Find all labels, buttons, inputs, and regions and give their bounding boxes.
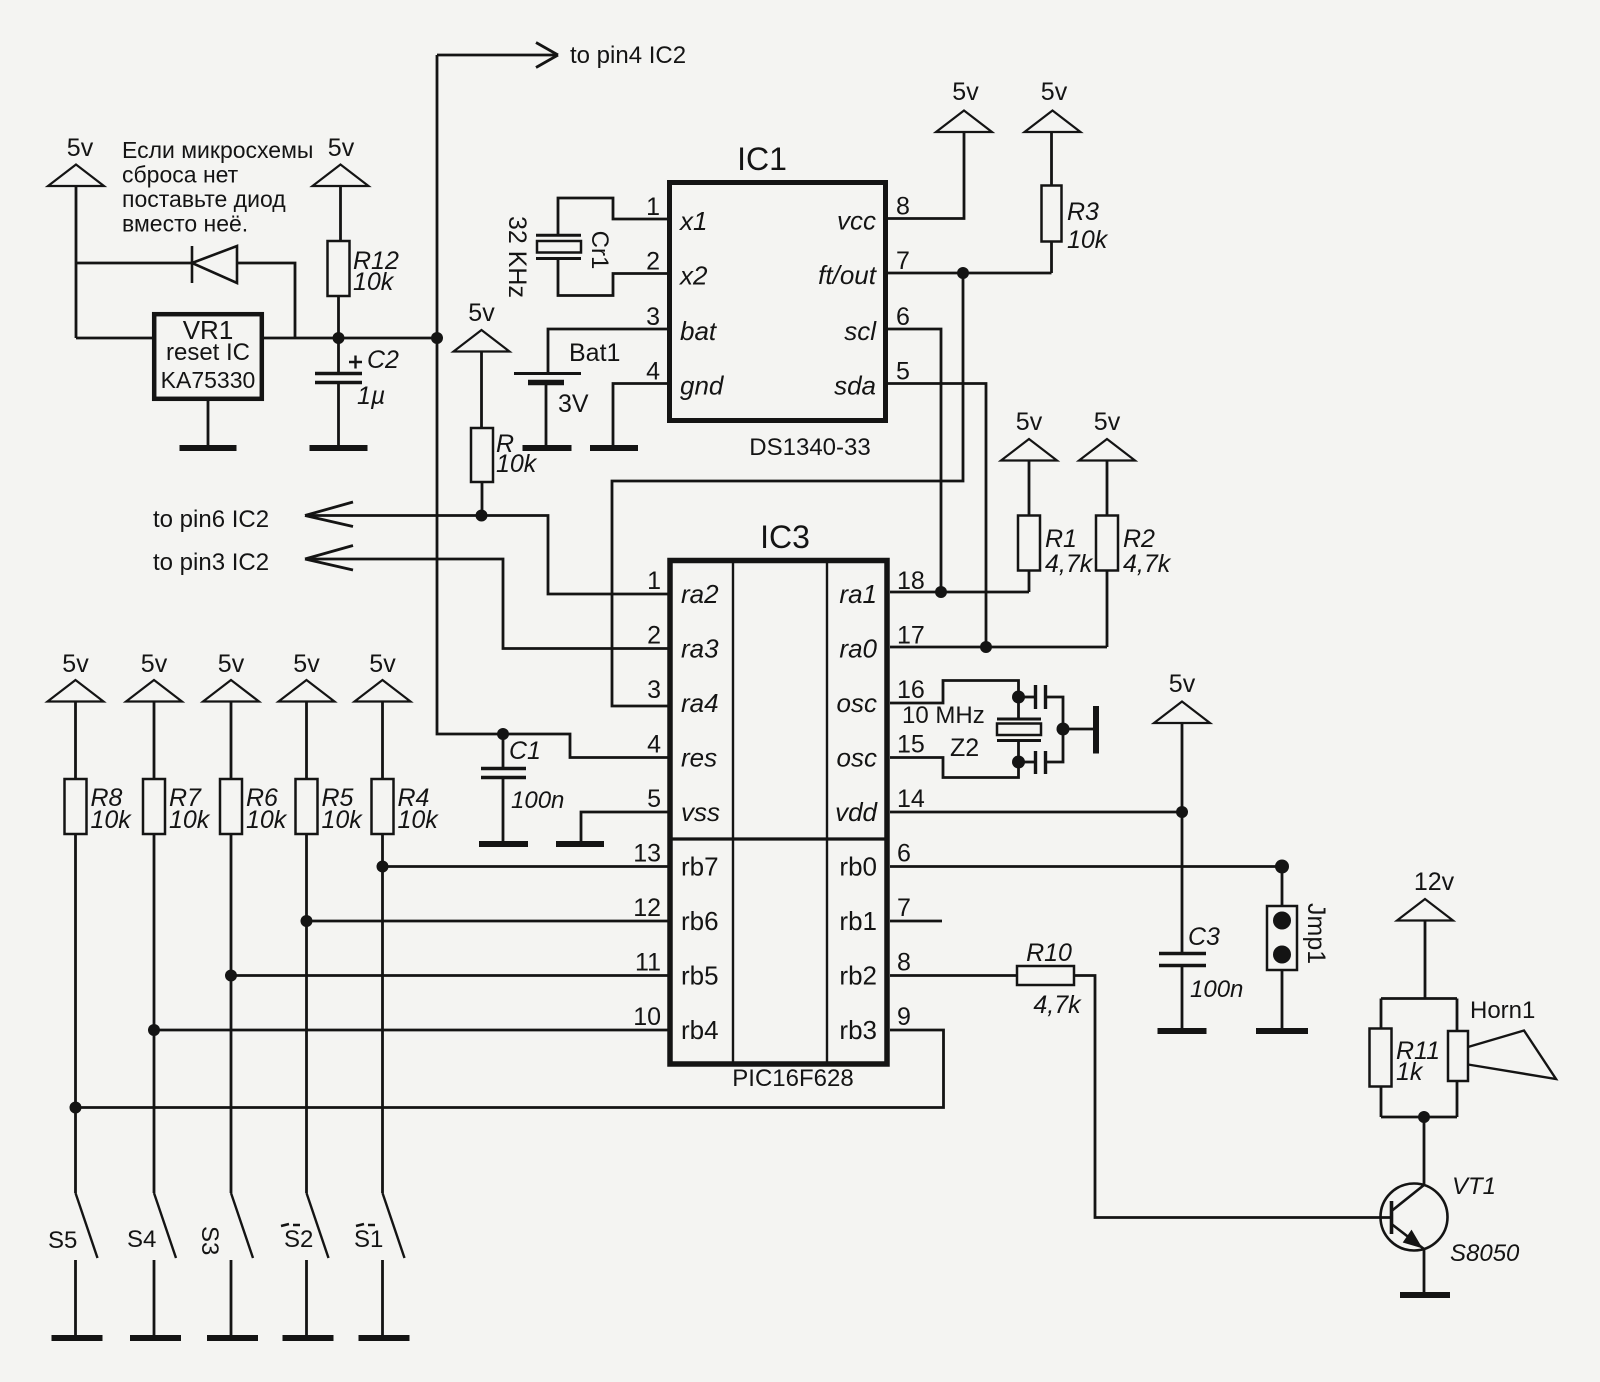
wire caps common to ground bar [1063, 728, 1093, 731]
switch S2 blade [307, 1193, 329, 1258]
wire 5v to R1 [1028, 461, 1031, 516]
svg-text:DS1340-33: DS1340-33 [749, 434, 870, 461]
svg-text:5v: 5v [67, 134, 94, 162]
svg-text:поставьте диод: поставьте диод [122, 186, 286, 212]
svg-text:IC1: IC1 [737, 141, 787, 177]
junction scl/ra1 [935, 586, 947, 598]
wire S2 to ground [305, 1260, 308, 1336]
wire R10 to VT1 base [1074, 976, 1390, 1218]
svg-text:R2: R2 [1123, 525, 1155, 553]
wire R8 to S5 [74, 834, 77, 1193]
svg-text:ft/out: ft/out [818, 260, 878, 290]
svg-text:x1: x1 [678, 206, 707, 236]
svg-text:rb7: rb7 [681, 852, 719, 882]
junction rb4/S4 [148, 1024, 160, 1036]
junction crystal top [1012, 691, 1025, 704]
wire 5v to R3 [1050, 132, 1053, 186]
ground S2 [283, 1335, 334, 1341]
VT1 base bar [1390, 1201, 1394, 1234]
power 5v (R pullup) [454, 330, 510, 352]
ground osc (vertical bar) [1093, 706, 1099, 754]
switch S4 blade [154, 1193, 176, 1258]
svg-text:rb4: rb4 [681, 1015, 719, 1045]
resistor R6 [220, 779, 242, 834]
junction rb0/Jmp1 [1275, 860, 1289, 874]
svg-text:11: 11 [635, 949, 661, 977]
switch S3 blade [231, 1193, 253, 1258]
wire IC3 rb5 to S3 column [231, 974, 668, 977]
svg-text:res: res [681, 743, 717, 773]
svg-text:scl: scl [844, 316, 877, 346]
power 5v (R12) [313, 165, 369, 187]
power 5v (vdd) [1154, 702, 1210, 724]
junction osc caps common [1057, 723, 1070, 736]
wire IC3 rb3 to S5 rail [76, 1030, 944, 1108]
wire IC3 ra0 [890, 646, 1107, 649]
svg-text:17: 17 [897, 622, 925, 650]
svg-text:vdd: vdd [835, 797, 878, 827]
power 5v (R6) [203, 680, 259, 702]
svg-text:вместо неё.: вместо неё. [122, 211, 248, 237]
capacitor C2 [315, 372, 362, 375]
svg-text:12v: 12v [1414, 868, 1455, 896]
svg-text:10k: 10k [246, 806, 288, 834]
wire Jmp1 to ground [1281, 970, 1284, 1031]
IC IC1 box [670, 183, 886, 421]
svg-text:7: 7 [896, 247, 910, 275]
svg-text:5v: 5v [468, 299, 495, 327]
battery Bat1 wire to IC1 pin3 [548, 329, 667, 374]
switch S1 blade [383, 1193, 405, 1258]
wire R to pin6 line [481, 482, 484, 516]
svg-text:rb5: rb5 [681, 961, 719, 991]
wire C1 lead [502, 734, 505, 769]
svg-text:5v: 5v [218, 650, 245, 678]
wire 5v to R4 [381, 702, 384, 780]
svg-text:S5: S5 [48, 1227, 77, 1254]
wire R11 top lead [1380, 999, 1383, 1029]
wire 5v to R5 [305, 702, 308, 780]
svg-text:1: 1 [647, 567, 661, 595]
speaker Horn1 terminal block [1448, 1031, 1468, 1081]
svg-text:vss: vss [681, 797, 720, 827]
battery Bat1 [514, 372, 581, 375]
svg-text:сброса нет: сброса нет [122, 162, 239, 188]
ground Jmp1 [1256, 1028, 1308, 1034]
power 5v (R1) [1001, 439, 1057, 461]
power 5v (R5) [279, 680, 335, 702]
resistor R [471, 428, 493, 482]
wire Bat1 to ground [545, 383, 548, 449]
power 12v [1397, 899, 1453, 921]
wire to-pin6 to IC3 ra2 [307, 516, 668, 595]
svg-text:osc: osc [837, 743, 877, 773]
svg-text:1: 1 [646, 193, 660, 221]
svg-text:15: 15 [897, 731, 925, 759]
wire diode anode [76, 262, 191, 265]
wire IC3 rb2 to R10 [890, 974, 1017, 977]
wire S3 to ground [230, 1260, 233, 1336]
svg-text:5: 5 [896, 358, 910, 386]
svg-text:5v: 5v [62, 650, 89, 678]
VT1 collector stroke [1392, 1185, 1425, 1211]
IC IC3 box [670, 561, 887, 1065]
diode D1 (to 5v) [192, 246, 237, 283]
svg-text:4,7k: 4,7k [1033, 991, 1082, 1019]
junction rb6/S2 [301, 915, 313, 927]
svg-text:10k: 10k [322, 806, 364, 834]
ground S3 [207, 1335, 258, 1341]
wire 12v to R11/Horn [1424, 922, 1427, 999]
wire S5 to ground [74, 1260, 77, 1336]
wire R2 to ra0 [1106, 571, 1109, 648]
svg-text:1k: 1k [1396, 1058, 1424, 1086]
junction rb5/S3 [225, 970, 237, 982]
svg-text:10k: 10k [496, 450, 538, 478]
capacitor C4 (osc top) [1034, 685, 1037, 709]
svg-text:10: 10 [633, 1003, 661, 1031]
svg-text:100n: 100n [511, 787, 564, 814]
wire R7 to S4 [153, 834, 156, 1193]
svg-text:C2: C2 [367, 346, 399, 374]
wire res net (to pin4 riser) [437, 55, 668, 758]
wire to VT1 collector [1423, 1117, 1426, 1185]
wire ft/out to IC3 ra4 [612, 273, 963, 706]
wire IC3 osc16 to crystal top [890, 681, 1019, 720]
junction sda/ra0 [980, 641, 992, 653]
wire S4 to ground [153, 1260, 156, 1336]
svg-text:S8050: S8050 [1450, 1240, 1520, 1267]
ground Bat1 [523, 445, 572, 451]
svg-text:13: 13 [633, 840, 661, 868]
svg-text:C1: C1 [509, 737, 541, 765]
wire IC3 rb4 to S4 column [154, 1029, 668, 1032]
svg-text:6: 6 [896, 303, 910, 331]
wire IC3 vdd [890, 811, 1182, 814]
wire IC3 osc15 to crystal bottom [890, 741, 1019, 778]
wire IC3 ra1 [890, 591, 1029, 594]
regulator VR1 box [154, 314, 262, 399]
speaker Horn1 cone [1468, 1031, 1556, 1080]
ground IC1 gnd pin [590, 445, 638, 451]
power 5v (vcc) [936, 111, 992, 133]
svg-text:8: 8 [896, 193, 910, 221]
svg-text:12: 12 [633, 894, 661, 922]
power 5v (R2) [1079, 439, 1135, 461]
S1 stray marks [356, 1224, 375, 1226]
resistor R4 [372, 779, 394, 834]
svg-text:32 KHz: 32 KHz [503, 216, 531, 298]
svg-text:bat: bat [680, 316, 718, 346]
wire VR1 output to node [264, 337, 437, 340]
wire Horn top lead [1456, 999, 1459, 1032]
junction rb3/S5 [70, 1102, 82, 1114]
svg-text:4: 4 [647, 731, 661, 759]
svg-text:5v: 5v [369, 650, 396, 678]
svg-text:to pin3 IC2: to pin3 IC2 [153, 549, 269, 576]
svg-text:7: 7 [897, 894, 911, 922]
wire 5v to R12 [339, 186, 342, 241]
power 5v (R4) [355, 680, 411, 702]
capacitor C1 [481, 767, 526, 770]
svg-text:Если микросхемы: Если микросхемы [122, 137, 313, 163]
wire 5v to R [480, 352, 483, 429]
wire R12 to node [337, 296, 340, 338]
svg-text:R10: R10 [1026, 939, 1072, 967]
junction rb7/S1 [377, 861, 389, 873]
resistor R10 [1017, 966, 1074, 985]
svg-text:ra1: ra1 [839, 579, 877, 609]
junction VR1-out/R12/C2 [333, 332, 345, 344]
junction VR1-out/res-line [431, 332, 443, 344]
resistor R5 [296, 779, 318, 834]
svg-text:3: 3 [646, 303, 660, 331]
svg-text:4,7k: 4,7k [1045, 550, 1094, 578]
svg-text:10k: 10k [91, 806, 133, 834]
svg-text:R3: R3 [1067, 198, 1099, 226]
capacitor C2 lead [337, 338, 340, 373]
svg-text:10k: 10k [1067, 226, 1109, 254]
svg-text:rb0: rb0 [839, 852, 877, 882]
svg-text:S4: S4 [127, 1226, 156, 1253]
power 5v (R7) [126, 680, 182, 702]
svg-text:10 MHz: 10 MHz [902, 702, 985, 729]
arrow to pin3 IC2 [305, 546, 353, 560]
ground VR1 [180, 445, 237, 451]
wire crystal bottom to C5 [1019, 761, 1035, 764]
junction R11/Horn/collector [1418, 1111, 1430, 1123]
svg-text:KA75330: KA75330 [161, 367, 256, 393]
VT1 emitter arrow [1404, 1231, 1422, 1248]
S2 stray marks [281, 1224, 300, 1226]
svg-text:Jmp1: Jmp1 [1302, 903, 1330, 964]
svg-text:Cr1: Cr1 [586, 231, 613, 270]
wire IC1 pin4 gnd [613, 384, 667, 449]
svg-text:rb1: rb1 [839, 906, 877, 936]
wire to-pin3 to IC3 ra3 [307, 559, 668, 649]
svg-text:ra3: ra3 [681, 634, 719, 664]
capacitor C5 (osc bottom) [1034, 751, 1037, 774]
ground C1 [479, 841, 528, 847]
resistor R12 [328, 241, 350, 296]
svg-text:5: 5 [647, 785, 661, 813]
arrow to pin4 IC2 [437, 54, 556, 57]
wire Horn bottom lead [1456, 1081, 1459, 1117]
svg-text:gnd: gnd [680, 371, 725, 401]
svg-text:rb2: rb2 [839, 961, 877, 991]
crystal Cr1 [536, 234, 581, 237]
capacitor C3 [1159, 952, 1206, 955]
svg-text:Horn1: Horn1 [1470, 997, 1535, 1024]
svg-text:PIC16F628: PIC16F628 [732, 1065, 853, 1092]
power 5v (R3) [1025, 111, 1081, 133]
wire R11/Horn bottom rail [1381, 1116, 1457, 1119]
svg-text:IC3: IC3 [760, 519, 810, 555]
switch S5 blade [76, 1193, 98, 1258]
svg-text:vcc: vcc [837, 206, 876, 236]
svg-text:10k: 10k [353, 268, 395, 296]
svg-text:9: 9 [897, 1003, 911, 1031]
resistor R2 [1096, 516, 1118, 571]
wire R4 to S1 [381, 834, 384, 1193]
ground S1 [359, 1335, 410, 1341]
wire R11/Horn top rail [1381, 997, 1457, 1000]
wire VT1 emitter to ground [1423, 1249, 1426, 1295]
svg-text:2: 2 [646, 248, 660, 276]
wire S1 to ground [381, 1260, 384, 1336]
svg-text:ra4: ra4 [681, 688, 719, 718]
svg-text:5v: 5v [1094, 408, 1121, 436]
jumper Jmp1 [1267, 906, 1297, 970]
wire IC3 rb1 stub [890, 920, 942, 923]
ground S4 [130, 1335, 181, 1341]
svg-text:5v: 5v [952, 78, 979, 106]
wire 5v to R7 [153, 702, 156, 780]
wire 5v to R2 [1106, 461, 1109, 516]
svg-text:S1: S1 [354, 1226, 383, 1253]
svg-text:5v: 5v [293, 650, 320, 678]
junction res/C1 [497, 728, 509, 740]
arrow to pin6 IC2 [305, 502, 353, 516]
wire IC3 vss to ground [581, 812, 668, 844]
svg-text:to pin6 IC2: to pin6 IC2 [153, 506, 269, 533]
svg-text:4: 4 [646, 358, 660, 386]
ground vss [556, 841, 604, 847]
svg-text:16: 16 [897, 676, 925, 704]
svg-text:5v: 5v [1016, 408, 1043, 436]
svg-text:S3: S3 [196, 1226, 223, 1255]
wire diode cathode to VR1 output [237, 263, 295, 338]
resistor R7 [143, 779, 165, 834]
resistor R11 [1370, 1029, 1392, 1087]
ground C2 [310, 445, 368, 451]
wire IC3 rb7 to S1 column [383, 865, 669, 868]
ground VT1 [1400, 1292, 1450, 1298]
wire R1 to ra1 [1028, 571, 1031, 593]
wire VR1 ground lead [207, 401, 210, 448]
svg-text:1µ: 1µ [357, 382, 385, 410]
wire rb0 to jumper [1281, 867, 1284, 907]
svg-text:osc: osc [837, 688, 877, 718]
wire 5v to VR1 input [75, 186, 78, 338]
resistor R3 [1042, 186, 1062, 242]
svg-text:C3: C3 [1188, 923, 1220, 951]
resistor R8 [65, 779, 87, 834]
wire IC1 pin1 to Cr1 [558, 198, 667, 235]
svg-text:S2: S2 [284, 1226, 313, 1253]
wire crystal top to C4 [1019, 696, 1035, 699]
wire IC1 ft/out [888, 272, 1052, 275]
svg-text:4,7k: 4,7k [1123, 550, 1172, 578]
junction vdd/C3 [1176, 806, 1188, 818]
svg-text:to pin4 IC2: to pin4 IC2 [570, 42, 686, 69]
wire IC1 vcc to 5v [888, 132, 964, 219]
wire C4 to gnd bar [1046, 697, 1064, 729]
wire R11 bottom lead [1380, 1087, 1383, 1118]
svg-text:10k: 10k [169, 806, 211, 834]
wire C1 to ground [502, 778, 505, 845]
svg-text:sda: sda [834, 371, 876, 401]
svg-text:ra0: ra0 [839, 634, 877, 664]
power 5v (diode branch) [48, 165, 104, 187]
svg-text:100n: 100n [1190, 976, 1243, 1003]
svg-text:8: 8 [897, 949, 911, 977]
VT1 emitter stroke [1392, 1224, 1425, 1249]
svg-text:3: 3 [647, 676, 661, 704]
capacitor C2 plus sign [349, 356, 362, 369]
wire VR1 input [76, 337, 152, 340]
ground C3 [1158, 1028, 1207, 1034]
wire IC1 pin2 to Cr1 [558, 259, 667, 296]
wire IC3 rb6 to S2 column [307, 920, 669, 923]
junction R/pin6 line [476, 510, 488, 522]
svg-text:3V: 3V [558, 390, 589, 418]
svg-text:x2: x2 [678, 261, 708, 291]
IC3 port divider [671, 837, 888, 840]
svg-text:10k: 10k [398, 806, 440, 834]
svg-text:5v: 5v [1041, 78, 1068, 106]
svg-text:R1: R1 [1045, 525, 1077, 553]
ground S5 [52, 1335, 103, 1341]
svg-text:14: 14 [897, 785, 925, 813]
wire 5v to R6 [230, 702, 233, 780]
junction ft/out node [957, 267, 969, 279]
svg-text:5v: 5v [141, 650, 168, 678]
wire R5 to S2 [305, 834, 308, 1193]
wire 5v to vdd/C3 [1181, 723, 1184, 954]
wire IC1 sda to ra0 line [888, 384, 986, 648]
svg-text:2: 2 [647, 622, 661, 650]
svg-text:rb3: rb3 [839, 1015, 877, 1045]
svg-text:5v: 5v [1169, 670, 1196, 698]
resistor R1 [1018, 516, 1040, 571]
wire IC3 rb0 to Jmp1 [890, 865, 1282, 868]
svg-text:5v: 5v [328, 134, 355, 162]
wire C5 to gnd bar [1046, 729, 1064, 762]
wire C2 to ground [337, 383, 340, 449]
svg-text:ra2: ra2 [681, 579, 719, 609]
wire C3 to ground [1181, 966, 1184, 1032]
junction crystal bottom [1012, 756, 1025, 769]
svg-text:rb6: rb6 [681, 906, 719, 936]
svg-text:VT1: VT1 [1452, 1173, 1496, 1200]
transistor VT1 body [1381, 1184, 1448, 1251]
svg-text:reset IC: reset IC [166, 339, 250, 366]
wire R3 to ft/out [1050, 242, 1053, 274]
wire 5v to R8 [74, 702, 77, 780]
svg-text:Z2: Z2 [950, 734, 979, 762]
svg-text:6: 6 [897, 840, 911, 868]
wire IC1 scl to ra1 line [888, 329, 941, 592]
wire R6 to S3 [230, 834, 233, 1193]
power 5v (R8) [48, 680, 104, 702]
svg-text:Bat1: Bat1 [569, 339, 620, 367]
crystal Z2 [997, 718, 1041, 721]
IC3 inner column lines [732, 561, 734, 1065]
